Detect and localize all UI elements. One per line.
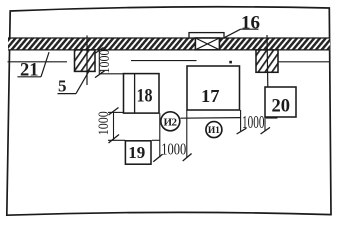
detector circle I1 — [206, 122, 222, 138]
damper X-box in slab — [195, 38, 219, 50]
svg-text:20: 20 — [271, 96, 290, 116]
slab 21 hatched band — [8, 38, 330, 50]
beam 5 (left, hatched) — [75, 50, 96, 72]
svg-text:5: 5 — [58, 77, 67, 96]
dimension 1000 (box17 plane to beam axis, right) — [237, 110, 270, 134]
svg-text:1000: 1000 — [161, 140, 186, 159]
box 19 — [125, 141, 151, 164]
suspended ceiling line left — [8, 61, 68, 63]
wire stub right of 1000 text — [266, 117, 278, 119]
label 16 — [224, 13, 260, 38]
axis line of right beam — [266, 35, 269, 87]
svg-text:19: 19 — [128, 143, 145, 162]
wire from I2 to right extension — [180, 117, 240, 120]
dimension 1000 (box18 bottom to box19 top) — [96, 108, 126, 144]
svg-text:21: 21 — [20, 61, 39, 81]
svg-text:1000: 1000 — [242, 112, 265, 132]
box 20 — [265, 87, 296, 117]
beam (right, hatched) — [256, 50, 278, 72]
svg-text:1000: 1000 — [96, 111, 112, 135]
box 18 — [124, 74, 160, 114]
detector circle I2 — [161, 112, 180, 131]
suspended ceiling line right — [278, 61, 331, 63]
svg-text:16: 16 — [241, 13, 260, 34]
suspended ceiling line middle — [131, 60, 197, 62]
svg-text:18: 18 — [137, 87, 153, 107]
svg-text:И2: И2 — [164, 116, 178, 128]
svg-text:17: 17 — [201, 86, 220, 106]
dimension 1000 (slab to box18 top) — [95, 47, 124, 77]
svg-text:И1: И1 — [208, 126, 220, 136]
box 19 top edge extension to right — [152, 139, 160, 141]
label 5 — [58, 70, 90, 95]
box 17 — [187, 66, 240, 110]
svg-text:1000: 1000 — [97, 50, 113, 74]
plate of element 16 on slab — [189, 33, 224, 38]
axis line of left beam — [86, 35, 88, 85]
label 21 — [17, 52, 49, 80]
ceiling point detector dot — [229, 61, 232, 64]
dimension 1000 (box18/19 plane to box17 plane, bottom) — [153, 110, 191, 162]
